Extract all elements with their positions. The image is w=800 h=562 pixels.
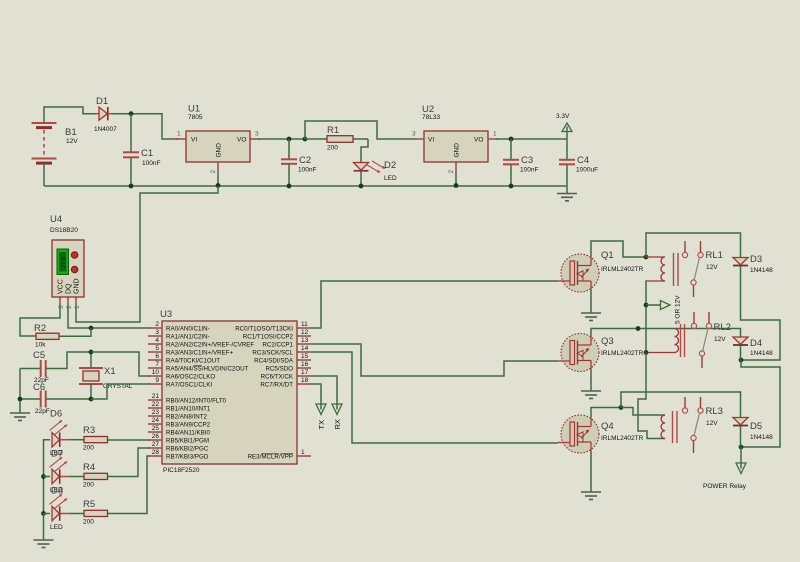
svg-text:24: 24 [152,417,160,424]
svg-text:D4: D4 [750,338,762,349]
node RL2 coil bottom / supply rail [644,350,649,355]
ground below LEDs [34,540,54,548]
svg-text:200: 200 [327,145,338,152]
svg-text:RA7/OSC1/CLKI: RA7/OSC1/CLKI [166,382,212,389]
svg-text:R2: R2 [34,323,46,334]
wire U4 VCC to R2 [20,304,60,336]
svg-text:22pF: 22pF [35,408,50,415]
svg-text:10: 10 [152,369,160,376]
svg-text:12V: 12V [706,420,718,427]
power terminal 5 OR 12V [644,295,682,324]
ground below Q4 [581,492,601,500]
svg-text:27: 27 [152,441,160,448]
svg-text:12V: 12V [66,138,78,145]
ground below Q1 [581,313,601,321]
wire crystal top to OSC2 pin10 [91,352,150,376]
node Q4 drain [619,405,624,410]
svg-text:2: 2 [448,170,455,174]
svg-text:9: 9 [155,377,159,384]
wire battery top to D1 [44,107,95,123]
resistor R1 200 [305,125,368,152]
svg-text:LED: LED [50,524,63,531]
node crystal bottom [89,397,94,402]
svg-text:TX: TX [317,420,326,430]
svg-text:D6: D6 [50,409,62,420]
svg-text:RA6/OSC2/CLKO: RA6/OSC2/CLKO [166,374,215,381]
svg-text:200: 200 [83,445,94,452]
svg-text:1: 1 [493,131,497,138]
capacitor C5 22pF [20,350,91,384]
svg-text:R1: R1 [327,125,339,136]
wire node to U1 VI [131,114,178,139]
node Q3 drain line [636,326,641,331]
wire C5/C6 left rail to ground [19,369,21,414]
node D8 / cathode rail [41,511,46,516]
svg-text:1N4148: 1N4148 [750,350,773,357]
svg-text:D8: D8 [51,486,63,497]
svg-text:GND: GND [216,143,223,158]
svg-text:3: 3 [58,305,65,309]
svg-text:12V: 12V [706,264,718,271]
svg-text:D1: D1 [96,96,108,107]
wire R1 to D2 [361,139,368,162]
wire C1 bottom to ground rail [130,158,132,187]
svg-text:RB1/AN10/INT1: RB1/AN10/INT1 [166,406,211,413]
U3 left pin names [166,326,254,461]
svg-text:15: 15 [301,353,309,360]
svg-text:1: 1 [301,449,305,456]
svg-text:RB5/KBI1/PGM: RB5/KBI1/PGM [166,438,209,445]
svg-text:B1: B1 [65,127,77,138]
capacitor C4 [559,139,598,193]
svg-text:RB7/KBI3/PGD: RB7/KBI3/PGD [166,454,209,461]
regulator U2 78L33 [412,104,498,174]
svg-text:4: 4 [155,337,159,344]
transistor Q4 IRLML2402TR [558,415,644,453]
svg-text:Q4: Q4 [601,421,614,432]
svg-text:C4: C4 [577,155,589,166]
svg-text:DQ: DQ [66,283,73,294]
svg-text:POWER Relay: POWER Relay [703,483,747,490]
svg-text:100nF: 100nF [298,167,316,174]
resistor R2 10k [34,323,91,349]
microcontroller U3 [160,309,297,474]
capacitor C2 [281,139,316,186]
U3 left pin stubs [148,328,162,456]
wire supply rail to RL3 [638,353,665,439]
svg-text:27.0: 27.0 [62,257,68,268]
wire pin17 to RX terminal [311,376,337,404]
node R2/DQ [89,326,94,331]
wire D4 node loop down [741,360,780,447]
svg-text:U1: U1 [188,104,200,115]
node U1 GND / ground rail [216,183,221,188]
wire pin14 to Q4 gate [311,352,558,443]
svg-text:RE3/MCLR/VPP: RE3/MCLR/VPP [248,454,293,461]
svg-text:VI: VI [428,137,434,144]
U3 right pin stubs [297,328,311,456]
node C2 / ground rail [287,184,292,189]
svg-text:IRLML2402TR: IRLML2402TR [601,266,644,273]
resistor R5 200 [70,456,150,526]
svg-text:100nF: 100nF [142,160,160,167]
resistor R4 200 [70,448,150,489]
battery B1 [32,123,79,186]
svg-text:22: 22 [152,401,160,408]
svg-text:RA3/AN3/C1IN+/VREF+: RA3/AN3/C1IN+/VREF+ [166,350,233,357]
terminal TX [316,404,326,430]
power terminal 3.3V [556,113,572,139]
svg-text:1N4148: 1N4148 [750,267,773,274]
LED D2 [354,160,397,186]
svg-text:7: 7 [155,361,159,368]
capacitor C1 [123,148,160,167]
svg-text:RB3/AN9/CCP2: RB3/AN9/CCP2 [166,422,211,429]
wire Q3 source to ground [590,370,592,392]
node D4 cathode [739,358,744,363]
transistor Q1 IRLML2402TR [558,250,644,292]
svg-text:RX: RX [333,419,342,429]
svg-text:17: 17 [301,369,309,376]
wire bypass over R1 to U2 VI [305,121,414,139]
svg-text:DS18B20: DS18B20 [50,227,78,234]
wire U2 VO to 3.3V [496,138,567,140]
svg-text:3.3V: 3.3V [556,113,570,120]
svg-text:5: 5 [155,345,159,352]
svg-text:1: 1 [177,131,181,138]
node C2 tap on 5V line [287,137,292,142]
svg-text:GND: GND [454,143,461,158]
svg-text:D2: D2 [384,160,396,171]
sensor U4 DS18B20 [50,214,84,309]
U3 right pin names [235,326,294,461]
svg-text:C3: C3 [521,155,533,166]
diode D5 1N4148 [733,418,773,442]
svg-text:7805: 7805 [188,114,203,121]
regulator U1 7805 [176,104,260,174]
wire U1 GND to rail [217,172,219,186]
svg-text:RB0/AN12/INT0/FLT0: RB0/AN12/INT0/FLT0 [166,398,227,405]
svg-text:RA1/AN1/C2IN-: RA1/AN1/C2IN- [166,334,210,341]
relay coil RL3 [661,406,723,443]
svg-text:25: 25 [152,425,160,432]
wire U1 VO to R1 node [258,138,305,140]
LED D7 [44,449,71,495]
svg-text:14: 14 [301,345,309,352]
wire pin18 to TX terminal [311,384,321,404]
node RL1 coil top [644,255,649,260]
wire LED cathode rail [44,440,51,514]
svg-text:D3: D3 [750,254,762,265]
svg-text:11: 11 [301,321,308,328]
svg-text:C5: C5 [33,350,45,361]
wire rail to ground [43,514,45,541]
terminal POWER Relay [703,463,747,490]
svg-text:LED: LED [384,175,397,182]
relay coil RL2 [646,322,731,357]
svg-text:RA2/AN2/C2IN+/VREF-/CVREF: RA2/AN2/C2IN+/VREF-/CVREF [166,342,254,349]
relay contact RL3 [682,397,703,453]
ground below C6 [10,413,30,421]
diode D4 1N4148 [733,337,773,357]
svg-text:1: 1 [74,305,81,309]
wire U4 DQ to U3 pin2 [68,304,150,328]
svg-text:C2: C2 [299,155,311,166]
wire pin13 to Q3 gate [311,344,558,376]
capacitor C6 22pF [20,382,91,415]
svg-text:VO: VO [237,137,246,144]
terminal RX [332,404,342,430]
wire Q4 source to ground [590,451,592,492]
svg-text:D5: D5 [750,421,762,432]
svg-text:RA4/T0CKI/C1OUT: RA4/T0CKI/C1OUT [166,358,220,365]
resistor R3 200 [70,425,150,452]
svg-text:RC2/CCP1: RC2/CCP1 [262,342,293,349]
relay coil RL1 [646,250,723,286]
node at D1 cathode [129,111,134,116]
node crystal top [89,350,94,355]
wire Q4 drain node to RL3 coil top [621,408,665,416]
svg-text:3: 3 [155,329,159,336]
svg-text:RC0/T1OSO/T13CKI: RC0/T1OSO/T13CKI [235,326,293,333]
svg-text:RC4/SDI/SDA: RC4/SDI/SDA [254,358,294,365]
ground below C4 [557,194,577,201]
svg-text:RA0/AN0/C1IN-: RA0/AN0/C1IN- [166,326,210,333]
svg-text:21: 21 [152,393,160,400]
svg-text:Q3: Q3 [601,336,614,347]
wire Q1 drain to RL1 node [591,241,646,257]
svg-text:RL3: RL3 [706,406,723,417]
diode D1 1N4007 [94,96,117,133]
relay contact RL1 [682,241,703,297]
svg-text:78L33: 78L33 [422,114,440,121]
svg-text:RB2/AN8/INT2: RB2/AN8/INT2 [166,414,207,421]
wire pin11 to Q1 gate [311,281,558,328]
transistor Q3 IRLML2402TR [558,334,644,372]
svg-text:3: 3 [412,131,416,138]
wire D1 cathode to node [112,113,135,115]
wire U4 GND to ground rail [76,186,218,322]
svg-text:12: 12 [301,329,309,336]
wire C1 top [130,114,132,152]
node D7 / cathode rail [41,474,46,479]
svg-text:IRLML2402TR: IRLML2402TR [601,350,644,357]
svg-text:R3: R3 [83,425,95,436]
svg-text:GND: GND [74,278,81,294]
U3 left pin numbers [152,321,160,456]
svg-text:5 OR 12V: 5 OR 12V [675,295,682,324]
U3 right pin numbers [301,321,309,456]
svg-text:U4: U4 [50,214,62,225]
svg-text:VO: VO [474,137,483,144]
svg-text:1000uF: 1000uF [576,167,598,174]
node C3 / ground rail [509,184,514,189]
ground below Q3 [581,391,601,399]
svg-text:X1: X1 [104,366,116,377]
svg-text:RC5/SDO: RC5/SDO [265,366,293,373]
svg-text:100nF: 100nF [520,167,538,174]
svg-text:28: 28 [152,449,160,456]
svg-text:12V: 12V [714,336,726,343]
svg-text:16: 16 [301,361,309,368]
svg-text:RC6/TX/CK: RC6/TX/CK [261,374,294,381]
svg-text:26: 26 [152,433,160,440]
node R1 / bypass tap [303,137,308,142]
svg-text:RC1/T1OSI/CCP2: RC1/T1OSI/CCP2 [243,334,294,341]
svg-text:C6: C6 [33,382,45,393]
ground rail (bottom) [44,185,567,187]
wire RL1 coil bottom to supply rail [646,281,647,353]
svg-text:R4: R4 [83,462,95,473]
crystal X1 [79,352,133,399]
LED D6 [50,409,71,458]
svg-text:R5: R5 [83,499,95,510]
svg-text:1N4148: 1N4148 [750,434,773,441]
svg-text:IRLML2402TR: IRLML2402TR [601,435,644,442]
wire Q4 drain node over to D5 [621,392,741,417]
svg-text:18: 18 [301,377,309,384]
node D2 / ground rail [359,184,364,189]
svg-text:10k: 10k [35,342,46,349]
wire crystal bottom to OSC1 pin9 [91,384,150,399]
relay contact RL2 [691,312,711,368]
svg-text:RB4/AN11/KBI0: RB4/AN11/KBI0 [166,430,210,437]
wire Q3 drain to RL2/D4 [591,329,741,338]
svg-text:200: 200 [83,519,94,526]
wire U2 GND to rail [455,172,457,186]
svg-text:3: 3 [255,131,259,138]
wire Q1 source to ground [590,290,592,313]
diode D3 1N4148 [733,254,773,274]
LED D8 [44,486,71,532]
svg-text:2: 2 [66,305,73,309]
svg-text:2: 2 [210,170,217,174]
svg-text:RC7/RX/DT: RC7/RX/DT [260,382,293,389]
svg-text:13: 13 [301,337,309,344]
svg-text:23: 23 [152,409,160,416]
svg-text:PIC18F2520: PIC18F2520 [163,467,200,474]
svg-text:C1: C1 [141,148,153,159]
svg-text:VI: VI [191,137,197,144]
node U2 GND / ground rail [454,183,459,188]
node C3 tap on 3.3V line [509,137,514,142]
svg-text:D7: D7 [51,449,63,460]
svg-text:2: 2 [155,321,159,328]
svg-text:Q1: Q1 [601,250,614,261]
svg-text:RL2: RL2 [714,322,731,333]
node D5 cathode [739,445,744,450]
capacitor C3 [503,139,538,186]
svg-text:RB6/KBI2/PGC: RB6/KBI2/PGC [166,446,209,453]
wire D3 cathode loop to supply node [741,266,781,361]
svg-text:VCC: VCC [58,279,65,294]
svg-text:RC3/SCK/SCL: RC3/SCK/SCL [252,350,293,357]
svg-text:200: 200 [83,482,94,489]
wire Q4 drain to node [591,408,621,418]
wire RL1 node up and over to D3 [646,233,741,257]
svg-text:RL1: RL1 [706,250,723,261]
svg-text:RA5/AN4/SS/HLVDIN/C2OUT: RA5/AN4/SS/HLVDIN/C2OUT [166,366,249,373]
node C1/rail [129,184,134,189]
svg-text:U3: U3 [160,309,172,320]
svg-text:6: 6 [155,353,159,360]
svg-text:1N4007: 1N4007 [94,126,117,133]
wire D5 node to POWER terminal [740,447,742,463]
